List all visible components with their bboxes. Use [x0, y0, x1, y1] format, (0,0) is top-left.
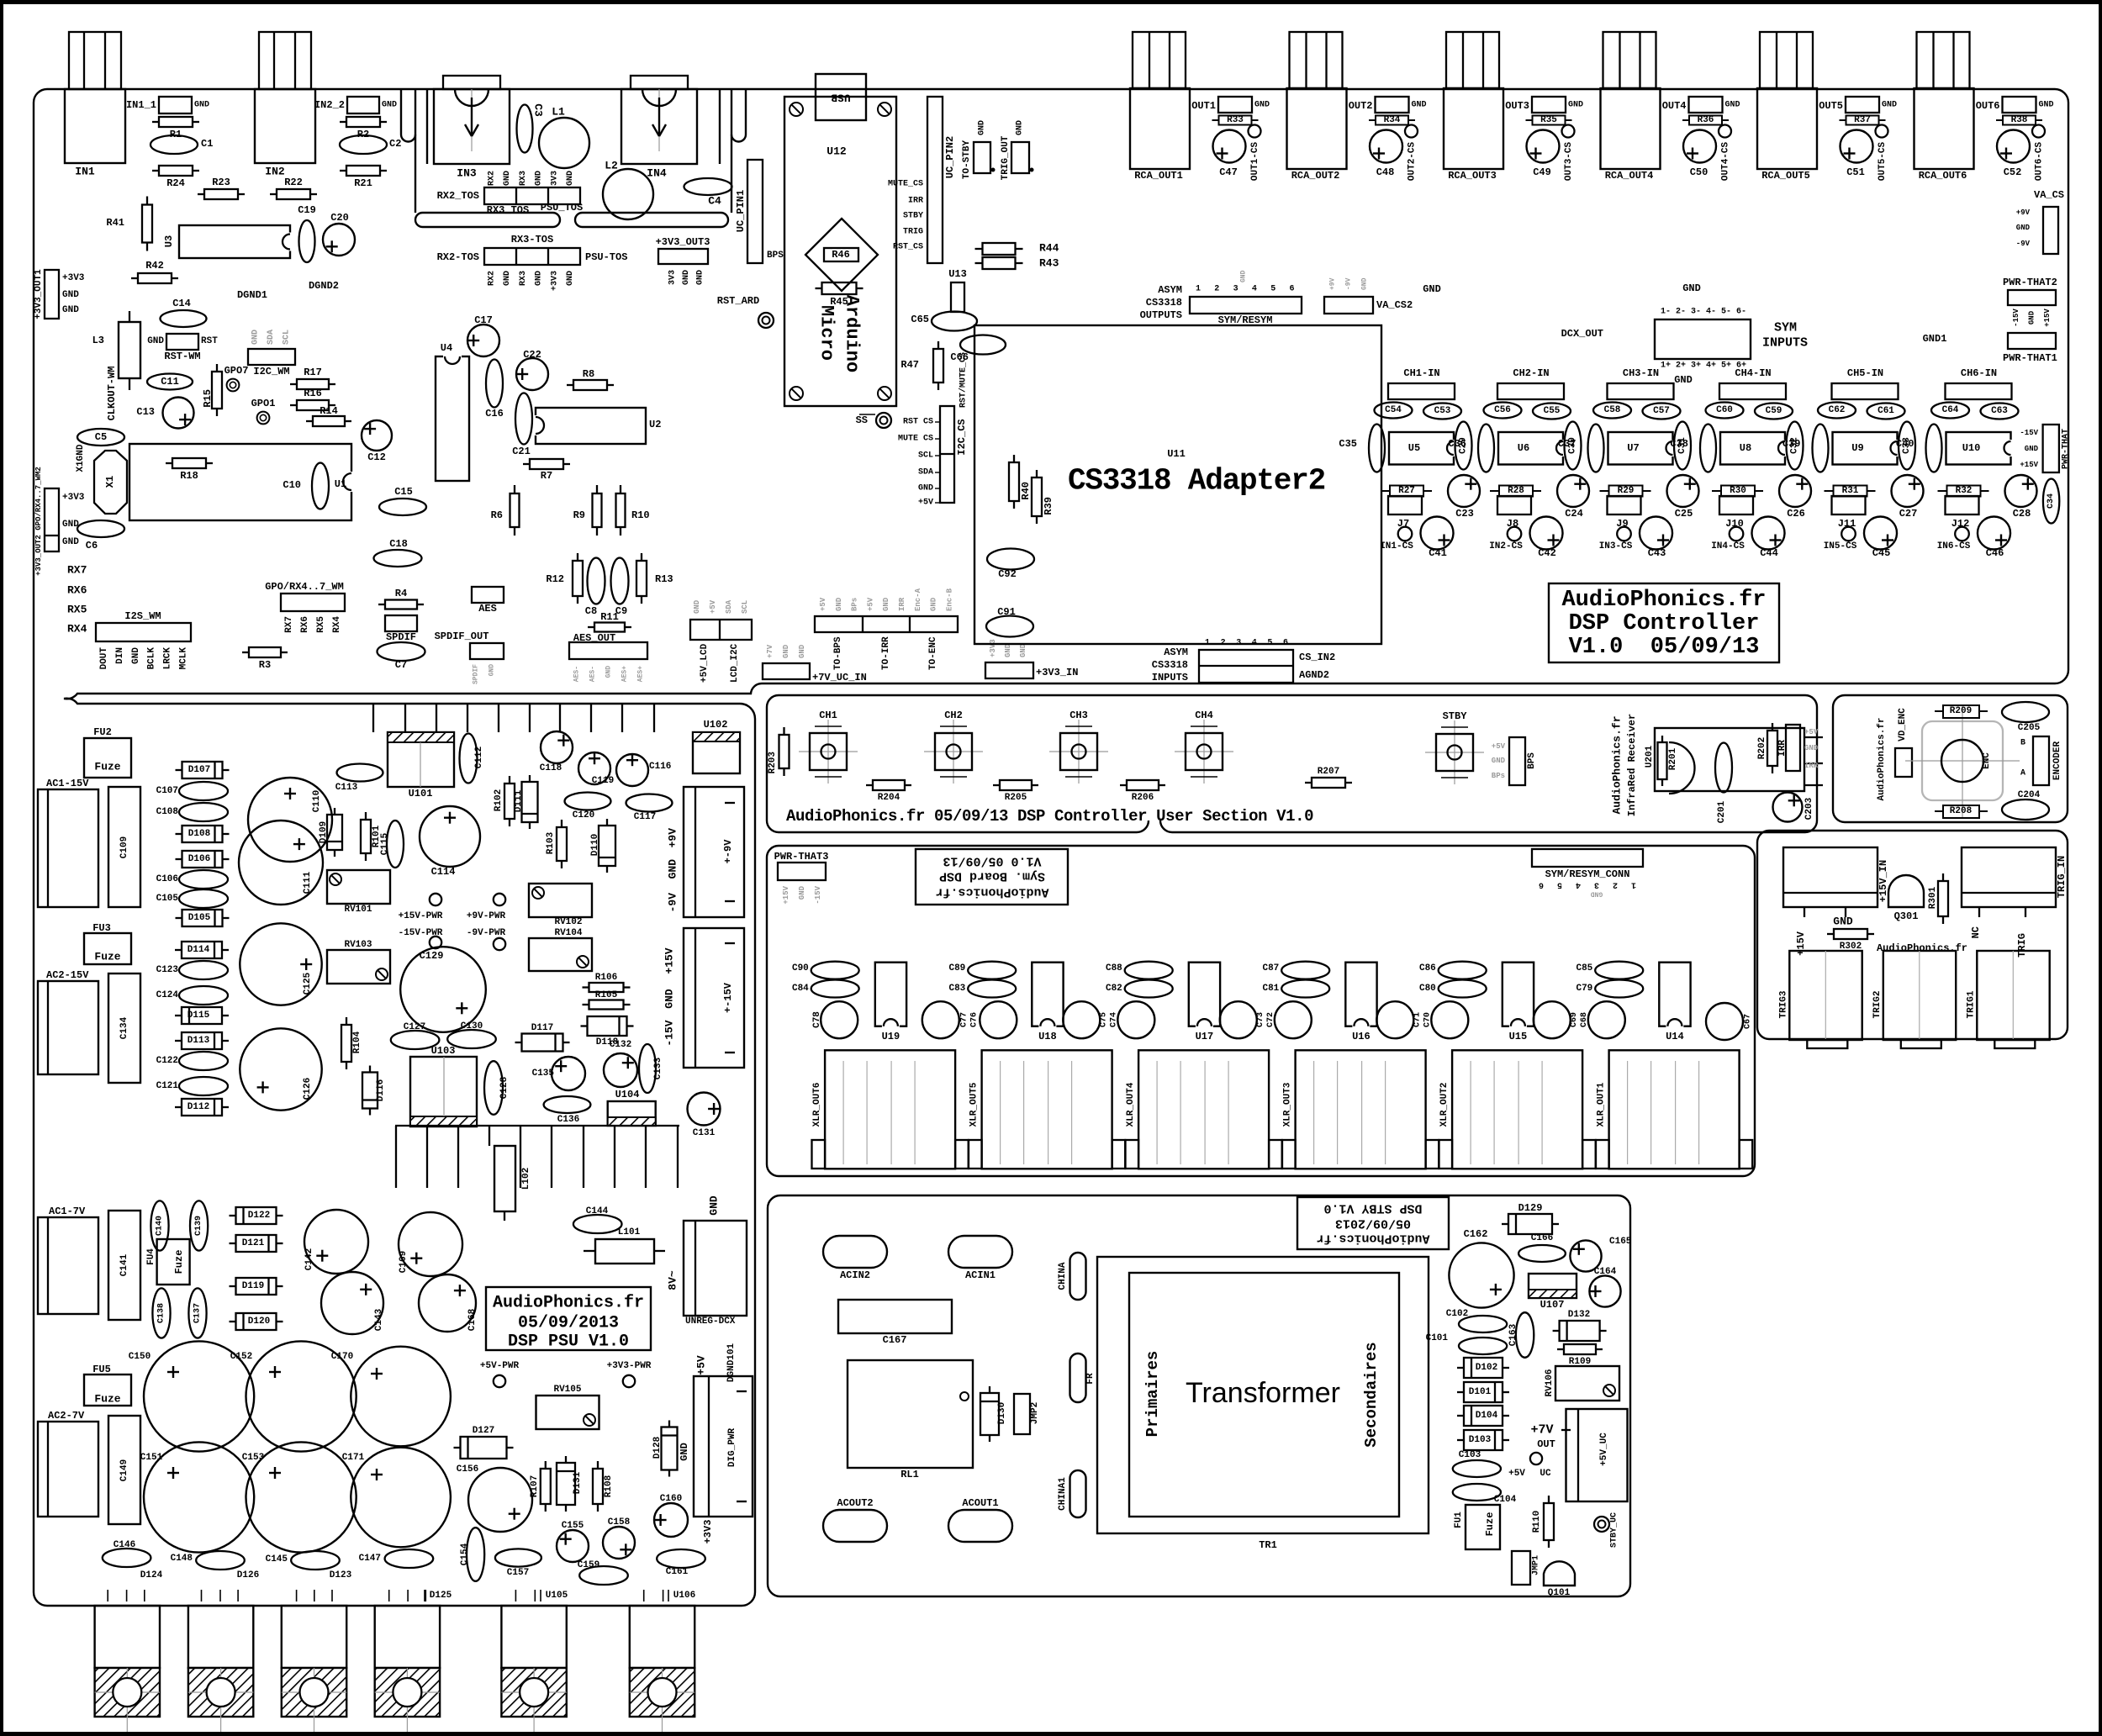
svg-text:RST_ARD: RST_ARD: [717, 295, 759, 307]
svg-text:OUT6: OUT6: [1976, 100, 2000, 112]
via OUT5-CS: [1876, 125, 1888, 138]
svg-text:XLR_OUT2: XLR_OUT2: [1439, 1083, 1450, 1127]
svg-text:1+ 2+ 3+ 4+ 5+ 6+: 1+ 2+ 3+ 4+ 5+ 6+: [1661, 361, 1746, 371]
svg-text:+3V3-PWR: +3V3-PWR: [607, 1361, 652, 1371]
capacitor C62: [1818, 403, 1856, 419]
capacitor C92: [987, 549, 1034, 570]
via OUT1-CS: [1249, 125, 1261, 138]
connector +5V_LCD LCD_I2C: [690, 620, 752, 640]
svg-text:C201: C201: [1717, 800, 1727, 823]
svg-text:C122: C122: [156, 1056, 178, 1066]
svg-text:TR1: TR1: [1259, 1539, 1277, 1551]
capacitor C169: [399, 1212, 462, 1276]
connector RCA_OUT1 jack: [1130, 88, 1190, 169]
capacitor C51: [1841, 130, 1873, 163]
svg-text:CH2-IN: CH2-IN: [1513, 367, 1549, 379]
capacitor C1: [151, 135, 198, 154]
svg-text:C10: C10: [283, 479, 301, 491]
svg-text:U102: U102: [704, 719, 728, 731]
title block DSP STBY: [1297, 1197, 1449, 1249]
svg-text:U3: U3: [163, 235, 175, 247]
svg-text:GND: GND: [62, 290, 79, 300]
svg-text:+15V: +15V: [1795, 931, 1807, 956]
ic U3: [179, 225, 290, 258]
capacitor C153: [246, 1442, 356, 1552]
svg-text:GND: GND: [1361, 277, 1369, 290]
svg-text:Fuze: Fuze: [94, 1393, 120, 1406]
capacitor C116: [616, 754, 648, 786]
svg-text:AC2-15V: AC2-15V: [46, 969, 89, 981]
svg-text:C167: C167: [883, 1334, 907, 1346]
capacitor C38: [1700, 425, 1716, 472]
svg-text:C134: C134: [119, 1016, 129, 1039]
via IN2-CS: [1508, 527, 1522, 541]
svg-text:4: 4: [1576, 880, 1581, 889]
svg-text:GND: GND: [566, 271, 575, 286]
svg-text:GND: GND: [1412, 101, 1427, 110]
svg-text:FU2: FU2: [93, 726, 112, 738]
svg-text:BPs: BPs: [851, 598, 859, 611]
capacitor C161: [657, 1549, 705, 1568]
svg-text:C35: C35: [1339, 438, 1357, 450]
crystal X1: [94, 451, 127, 514]
svg-text:R16: R16: [304, 388, 322, 399]
capacitor C26: [1779, 475, 1811, 507]
svg-text:3: 3: [1236, 639, 1241, 648]
svg-text:R208: R208: [1950, 806, 1973, 816]
resistor R29: [1600, 490, 1609, 492]
svg-text:R9: R9: [573, 509, 585, 521]
svg-text:-15V: -15V: [663, 1020, 676, 1046]
ic U10: [1946, 432, 2011, 465]
svg-text:C157: C157: [507, 1568, 529, 1578]
svg-text:C121: C121: [156, 1081, 179, 1091]
svg-text:R4: R4: [395, 588, 407, 599]
title block DSP PSU: [486, 1287, 651, 1350]
connector XLR_OUT5: [982, 1050, 1112, 1169]
ic U8: [1720, 432, 1785, 465]
capacitor C14: [161, 310, 207, 327]
capacitor C23: [1448, 475, 1480, 507]
inductor L2: [603, 169, 653, 219]
capacitor C167: [838, 1300, 952, 1333]
svg-text:UNREG-DCX: UNREG-DCX: [685, 1317, 736, 1327]
svg-text:Fuze: Fuze: [173, 1250, 185, 1274]
capacitor C53: [1423, 404, 1461, 419]
capacitor C133: [639, 1044, 656, 1093]
svg-text:-9V: -9V: [1345, 277, 1353, 290]
svg-text:3V3: 3V3: [668, 270, 678, 285]
capacitor C5: [77, 429, 124, 446]
svg-text:GND: GND: [147, 336, 164, 346]
svg-text:PWR-THAT: PWR-THAT: [2062, 429, 2071, 469]
svg-text:R31: R31: [1842, 486, 1859, 496]
capacitor C85: [1595, 962, 1643, 979]
capacitor C13: [163, 398, 194, 429]
capacitor C7: [378, 642, 425, 661]
svg-text:GND: GND: [918, 484, 933, 493]
svg-text:D128: D128: [652, 1436, 663, 1459]
svg-text:C149: C149: [119, 1459, 129, 1481]
svg-text:R12: R12: [546, 573, 564, 585]
svg-text:C135: C135: [532, 1069, 555, 1079]
svg-text:AES+: AES+: [637, 666, 645, 682]
svg-text:GND: GND: [1882, 101, 1897, 110]
svg-text:C103: C103: [1459, 1450, 1481, 1460]
svg-text:DGND2: DGND2: [309, 280, 339, 292]
svg-text:D126: D126: [237, 1570, 259, 1580]
svg-text:C158: C158: [608, 1517, 631, 1528]
trimmer RV106: [1555, 1366, 1619, 1401]
diode D115: [175, 1015, 182, 1016]
diode D111: [529, 775, 531, 782]
capacitor C27: [1892, 475, 1924, 507]
resistor R32: [1938, 490, 1947, 492]
svg-text:C105: C105: [156, 894, 179, 904]
connector J8: [1497, 496, 1531, 514]
connector ACIN2: [823, 1236, 887, 1268]
svg-text:C42: C42: [1538, 547, 1556, 559]
svg-text:-15V: -15V: [814, 885, 822, 904]
capacitor C84: [811, 980, 859, 998]
svg-text:+5V: +5V: [819, 597, 827, 611]
svg-text:OUT2: OUT2: [1349, 100, 1373, 112]
resistor R2: [340, 121, 346, 123]
svg-text:D108: D108: [188, 829, 211, 839]
svg-text:C28: C28: [2013, 508, 2031, 520]
svg-text:R6: R6: [491, 509, 503, 521]
svg-text:C91: C91: [997, 606, 1016, 618]
transistor Q101: [1544, 1561, 1575, 1586]
inductor L1: [539, 118, 589, 168]
capacitor C115: [387, 821, 404, 868]
svg-text:I2C_CS: I2C_CS: [956, 419, 968, 455]
connector BPS: [1509, 737, 1525, 785]
svg-text:U103: U103: [431, 1045, 456, 1057]
svg-text:IN5-CS: IN5-CS: [1824, 541, 1857, 551]
svg-text:+9V: +9V: [667, 828, 679, 848]
svg-text:OUTPUTS: OUTPUTS: [1140, 309, 1182, 321]
svg-text:U12: U12: [827, 145, 847, 158]
svg-text:XLR_OUT6: XLR_OUT6: [812, 1083, 822, 1127]
svg-text:TO-BPS: TO-BPS: [833, 636, 843, 670]
svg-text:R35: R35: [1540, 115, 1557, 125]
main board outline: [47, 89, 2068, 699]
connector OUT6 pad: [2003, 97, 2036, 113]
resistor R13: [641, 553, 642, 561]
svg-text:IN1: IN1: [75, 166, 95, 178]
svg-text:SYM: SYM: [1774, 321, 1797, 335]
capacitor C147: [385, 1549, 434, 1568]
inductor L102: [494, 1146, 515, 1211]
connector AES: [472, 587, 504, 603]
svg-text:STBY_UC: STBY_UC: [1610, 1512, 1619, 1548]
svg-text:Sym. Board DSP: Sym. Board DSP: [939, 869, 1045, 884]
capacitor C45: [1864, 517, 1897, 550]
svg-text:D103: D103: [1469, 1435, 1492, 1445]
svg-text:AudioPhonics.fr: AudioPhonics.fr: [1561, 588, 1766, 613]
svg-text:C40: C40: [1896, 438, 1915, 450]
svg-text:C132: C132: [610, 1040, 631, 1050]
capacitor C109: [108, 787, 140, 907]
connector J7: [1388, 496, 1422, 514]
svg-text:R39: R39: [1043, 497, 1054, 515]
svg-text:C49: C49: [1533, 166, 1551, 178]
svg-text:R18: R18: [180, 470, 198, 482]
svg-text:6: 6: [1283, 639, 1288, 648]
title block DSP Controller: [1549, 583, 1779, 662]
svg-text:IN3: IN3: [457, 167, 477, 180]
svg-text:GND: GND: [382, 101, 397, 110]
capacitor C157: [495, 1549, 541, 1566]
diode D103: [1457, 1439, 1464, 1441]
connector J12: [1946, 496, 1979, 514]
svg-text:AC1-7V: AC1-7V: [49, 1206, 86, 1217]
button CH3: [1078, 720, 1080, 784]
svg-text:U201: U201: [1645, 745, 1655, 768]
svg-text:GND: GND: [2016, 224, 2031, 232]
svg-text:C45: C45: [1872, 547, 1891, 559]
capacitor C203: [1773, 793, 1803, 822]
svg-text:GND: GND: [535, 271, 544, 286]
svg-text:D110: D110: [590, 834, 600, 856]
svg-text:Q301: Q301: [1894, 910, 1919, 922]
svg-text:InfraRed Receiver: InfraRed Receiver: [1626, 714, 1638, 816]
svg-text:C146: C146: [114, 1540, 135, 1550]
capacitor C135: [552, 1057, 585, 1090]
resistor R209: [1935, 710, 1943, 712]
svg-text:U11: U11: [1167, 448, 1186, 460]
capacitor C24: [1557, 475, 1589, 507]
svg-text:C72: C72: [1266, 1012, 1275, 1027]
resistor R23: [198, 193, 204, 195]
svg-text:C123: C123: [156, 965, 179, 975]
svg-text:C51: C51: [1846, 166, 1865, 178]
svg-text:IN2: IN2: [265, 166, 285, 178]
capacitor C129: [400, 947, 486, 1032]
svg-text:GND: GND: [679, 1443, 690, 1461]
svg-text:GND: GND: [2028, 310, 2036, 325]
svg-text:C54: C54: [1385, 405, 1402, 415]
capacitor C10: [312, 463, 329, 509]
diode D105: [176, 917, 182, 919]
connector UC_PIN1: [747, 160, 763, 263]
svg-text:D131: D131: [573, 1471, 583, 1494]
capacitor C35: [1369, 425, 1385, 472]
capacitor C139: [190, 1200, 208, 1250]
diode D118: [581, 1025, 588, 1026]
svg-text:PSU-TOS: PSU-TOS: [585, 251, 627, 263]
capacitor C63: [1981, 404, 2019, 419]
svg-text:C153: C153: [242, 1453, 265, 1463]
svg-text:RX2: RX2: [488, 271, 497, 286]
capacitor C71: [1376, 1001, 1413, 1038]
svg-text:2: 2: [1613, 880, 1618, 889]
svg-text:GND: GND: [1019, 643, 1027, 657]
svg-text:IRR: IRR: [908, 197, 923, 206]
svg-text:AudioPhonics.fr: AudioPhonics.fr: [1877, 717, 1887, 800]
svg-text:C143: C143: [374, 1308, 384, 1331]
svg-text:U106: U106: [673, 1591, 695, 1601]
capacitor C90: [811, 962, 859, 979]
svg-text:GND: GND: [2025, 445, 2039, 453]
svg-text:ASYM: ASYM: [1158, 284, 1182, 296]
capacitor C30: [1565, 422, 1582, 470]
capacitor C69: [1534, 1001, 1571, 1038]
svg-text:Fuze: Fuze: [94, 951, 120, 963]
svg-text:AudioPhonics.fr: AudioPhonics.fr: [935, 885, 1048, 900]
connector SYM/RESYM: [1190, 297, 1302, 314]
connector TRIG_OUT: [1011, 142, 1029, 173]
svg-text:RST: RST: [201, 336, 218, 346]
diode D113: [175, 1040, 182, 1042]
svg-text:LCD_I2C: LCD_I2C: [730, 643, 740, 683]
resistor R109: [1557, 1348, 1564, 1350]
svg-text:C205: C205: [2018, 723, 2041, 733]
svg-text:R24: R24: [166, 177, 185, 189]
capacitor C141: [108, 1211, 140, 1320]
svg-text:C8: C8: [585, 605, 597, 617]
connector FR: [1070, 1353, 1086, 1402]
svg-text:R30: R30: [1730, 486, 1746, 496]
capacitor C22: [516, 358, 548, 390]
svg-text:+15V-PWR: +15V-PWR: [399, 911, 443, 921]
svg-text:DIN: DIN: [115, 647, 125, 664]
svg-text:RX2-TOS: RX2-TOS: [437, 251, 479, 263]
capacitor C105: [179, 889, 228, 908]
capacitor C123: [179, 961, 228, 979]
svg-text:C36: C36: [1448, 438, 1466, 450]
via +5V UC: [1530, 1453, 1542, 1464]
diode D116: [369, 1066, 371, 1073]
svg-text:C109: C109: [119, 836, 129, 858]
resistor R106: [583, 986, 589, 988]
capacitor C76: [980, 1001, 1017, 1038]
connector OUT3 pad: [1532, 97, 1566, 113]
svg-text:C70: C70: [1423, 1012, 1432, 1027]
connector RCA_OUT3 jack: [1444, 88, 1503, 169]
svg-text:R11: R11: [600, 611, 619, 623]
capacitor C149: [108, 1416, 140, 1524]
svg-text:GND: GND: [667, 859, 679, 879]
svg-text:TO-STBY: TO-STBY: [962, 140, 972, 180]
connector VA_CS2: [1324, 297, 1373, 314]
capacitor C117: [626, 794, 673, 812]
capacitor C81: [1281, 980, 1329, 998]
svg-text:C154: C154: [460, 1543, 470, 1565]
via +9V-PWR: [494, 894, 505, 905]
resistor R37: [1840, 119, 1846, 121]
svg-text:RV102: RV102: [554, 917, 582, 927]
svg-text:RX4: RX4: [67, 623, 87, 636]
via OUT6-CS: [2032, 125, 2045, 138]
svg-text:SYM/RESYM: SYM/RESYM: [1218, 314, 1273, 326]
svg-text:C53: C53: [1434, 406, 1451, 416]
capacitor C66: [960, 335, 1006, 355]
via STBY_UC: [1594, 1517, 1609, 1532]
via IN1-CS: [1398, 527, 1413, 541]
svg-text:+9V: +9V: [1329, 277, 1337, 290]
svg-text:GND: GND: [1804, 744, 1819, 752]
svg-text:C60: C60: [1716, 405, 1733, 415]
svg-text:C79: C79: [1576, 984, 1592, 994]
svg-text:C76: C76: [970, 1012, 980, 1027]
svg-text:IN1-CS: IN1-CS: [1380, 541, 1413, 551]
capacitor C52: [1997, 130, 2030, 163]
resistor R9: [596, 485, 598, 493]
capacitor C2: [340, 135, 387, 154]
svg-text:OUT3: OUT3: [1505, 100, 1529, 112]
svg-text:R38: R38: [2011, 115, 2028, 125]
svg-text:R207: R207: [1318, 767, 1339, 777]
svg-text:C165: C165: [1609, 1237, 1632, 1247]
stby board outline: [768, 1195, 1630, 1596]
capacitor C31: [1674, 422, 1691, 470]
connector RCA_OUT5 jack: [1757, 88, 1817, 169]
svg-text:C41: C41: [1429, 547, 1447, 559]
connector ACIN1: [948, 1236, 1012, 1268]
svg-text:I2C_WM: I2C_WM: [253, 366, 289, 377]
svg-text:SPDIF: SPDIF: [473, 664, 480, 684]
diode D119: [230, 1285, 236, 1287]
svg-text:C86: C86: [1419, 963, 1436, 974]
svg-text:1: 1: [1196, 285, 1201, 294]
capacitor C126: [240, 1028, 321, 1110]
svg-text:D129: D129: [1518, 1202, 1543, 1214]
svg-text:Fuze: Fuze: [1484, 1512, 1496, 1537]
resistor R47: [937, 341, 939, 349]
diode D114: [175, 949, 182, 951]
svg-text:C137: C137: [193, 1303, 203, 1323]
capacitor C28: [2005, 475, 2037, 507]
svg-text:C129: C129: [420, 950, 444, 962]
svg-text:XLR_OUT4: XLR_OUT4: [1126, 1082, 1136, 1127]
capacitor C79: [1595, 980, 1643, 998]
svg-text:ACIN1: ACIN1: [965, 1269, 996, 1281]
svg-text:C74: C74: [1109, 1012, 1118, 1027]
svg-text:SPDIF_OUT: SPDIF_OUT: [435, 631, 489, 642]
connector VD_ENC: [1895, 748, 1912, 777]
svg-text:R37: R37: [1854, 115, 1871, 125]
svg-text:+5V_LCD: +5V_LCD: [700, 643, 710, 683]
ic U17: [1189, 963, 1220, 1026]
resistor R31: [1825, 490, 1834, 492]
svg-text:D127: D127: [473, 1426, 494, 1436]
svg-text:C144: C144: [586, 1206, 609, 1216]
svg-text:U8: U8: [1740, 442, 1751, 454]
svg-text:C26: C26: [1787, 508, 1805, 520]
svg-text:C71: C71: [1413, 1012, 1422, 1027]
svg-text:C44: C44: [1760, 547, 1778, 559]
capacitor C11: [147, 374, 193, 390]
ic U16: [1345, 963, 1376, 1026]
svg-text:FR: FR: [1085, 1373, 1096, 1385]
svg-text:ASYM: ASYM: [1164, 646, 1188, 658]
resistor R24: [152, 170, 159, 171]
connector XLR_OUT2: [1452, 1050, 1582, 1169]
connector OUT5 pad: [1846, 97, 1879, 113]
capacitor C88: [1125, 962, 1173, 979]
capacitor C48: [1370, 130, 1402, 163]
svg-text:R108: R108: [604, 1475, 614, 1497]
capacitor C47: [1213, 130, 1246, 163]
svg-text:+5V: +5V: [695, 1355, 708, 1375]
capacitor C83: [968, 980, 1016, 998]
capacitor C46: [1978, 517, 2010, 550]
capacitor C143: [321, 1272, 383, 1334]
svg-text:C170: C170: [331, 1352, 353, 1362]
svg-text:C118: C118: [540, 763, 562, 773]
